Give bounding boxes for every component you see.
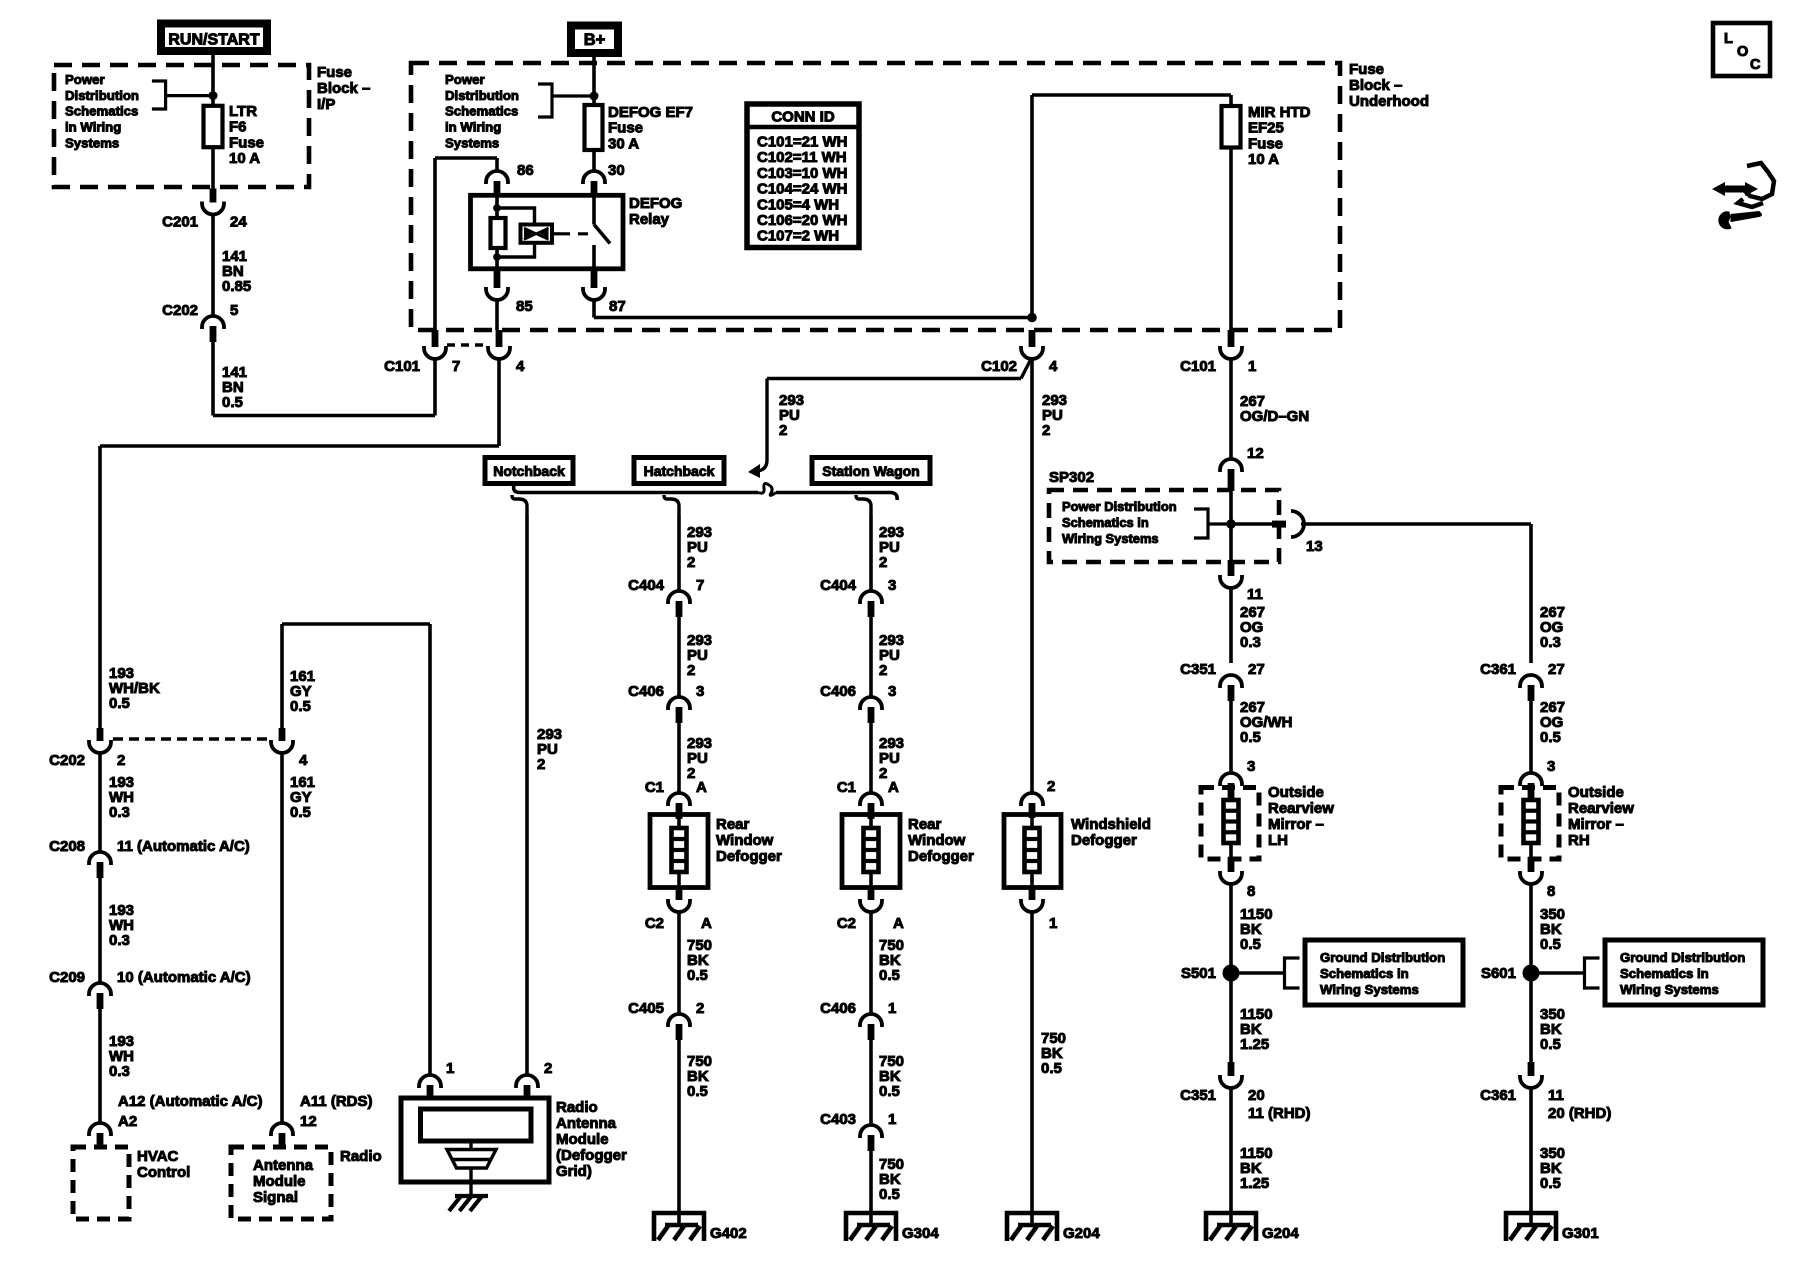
connector C403 pin 1 <box>860 1125 882 1138</box>
svg-text:Fuse: Fuse <box>1349 61 1384 78</box>
wire 293 PU 2 <box>869 514 873 591</box>
svg-text:0.85: 0.85 <box>222 278 251 295</box>
svg-text:2: 2 <box>117 752 125 769</box>
svg-text:4: 4 <box>299 752 308 769</box>
svg-text:2: 2 <box>687 765 695 782</box>
svg-text:0.5: 0.5 <box>109 695 130 712</box>
connector C361 pin 27 <box>1520 675 1542 688</box>
wire pin 85 to C101 pin 4 <box>495 300 499 330</box>
branch arrow end <box>757 379 767 472</box>
connector C406 pin 3 <box>668 697 690 710</box>
wire 293 PU 2 <box>677 616 681 697</box>
svg-text:C351: C351 <box>1180 661 1216 678</box>
svg-text:EF25: EF25 <box>1248 120 1284 137</box>
svg-text:L: L <box>1724 31 1733 47</box>
connector C404 pin 7 <box>668 591 690 604</box>
relay switch <box>592 195 596 224</box>
svg-text:0.3: 0.3 <box>109 1063 130 1080</box>
svg-text:C103=10 WH: C103=10 WH <box>757 165 847 182</box>
svg-text:C2: C2 <box>837 915 856 932</box>
wire 193 WH 0.3 <box>98 1008 102 1123</box>
svg-text:Block –: Block – <box>1349 77 1402 94</box>
svg-text:Defogger: Defogger <box>1071 832 1137 849</box>
svg-text:in Wiring: in Wiring <box>445 120 501 135</box>
svg-text:1.25: 1.25 <box>1240 1036 1269 1053</box>
svg-text:Control: Control <box>137 1164 190 1181</box>
power source box RUN/START <box>161 24 267 52</box>
svg-text:Schematics in: Schematics in <box>1620 966 1709 981</box>
HVAC Control dashed box <box>73 1147 129 1219</box>
wire 750 BK 0.5 <box>677 912 681 1014</box>
svg-text:Power: Power <box>65 72 105 87</box>
connector pin 2 windshield defogger <box>1021 793 1043 806</box>
svg-text:1: 1 <box>888 1000 896 1017</box>
wire 1150 BK 0.5 <box>1229 884 1233 973</box>
svg-text:3: 3 <box>888 577 896 594</box>
svg-text:Schematics in: Schematics in <box>1320 966 1409 981</box>
connector C351 pin 20 <box>1228 1062 1235 1076</box>
wire 141 BN 0.5 <box>211 341 215 416</box>
svg-text:Rearview: Rearview <box>1268 800 1334 817</box>
svg-text:2: 2 <box>696 1000 704 1017</box>
svg-text:2: 2 <box>544 1060 552 1077</box>
C202 dashed tie <box>113 737 270 740</box>
svg-text:Hatchback: Hatchback <box>644 463 715 479</box>
svg-text:DEFOG EF7: DEFOG EF7 <box>608 104 693 121</box>
svg-text:C361: C361 <box>1480 661 1516 678</box>
svg-text:C102=11 WH: C102=11 WH <box>757 149 847 166</box>
branch to ground distribution note <box>1239 971 1285 974</box>
svg-text:C202: C202 <box>162 302 198 319</box>
connector C405 pin 2 <box>668 1014 690 1027</box>
svg-text:11: 11 <box>1247 586 1263 603</box>
svg-text:C405: C405 <box>628 1000 664 1017</box>
svg-text:20: 20 <box>1248 1087 1265 1104</box>
radio antenna module pin 1 <box>419 1075 441 1088</box>
svg-text:87: 87 <box>609 298 626 315</box>
svg-text:Fuse: Fuse <box>229 134 264 151</box>
svg-text:C351: C351 <box>1180 1087 1216 1104</box>
svg-text:C208: C208 <box>49 838 85 855</box>
branch to ground distribution note RH <box>1539 971 1585 974</box>
svg-text:0.5: 0.5 <box>687 967 708 984</box>
svg-text:Fuse: Fuse <box>1248 135 1283 152</box>
svg-text:C: C <box>1750 57 1761 73</box>
svg-text:C107=2 WH: C107=2 WH <box>757 228 839 245</box>
ground G402 <box>677 1211 681 1225</box>
svg-text:Ground Distribution: Ground Distribution <box>1620 950 1745 965</box>
relay pin 85 connector <box>494 269 501 288</box>
connector C202 pin 5 <box>202 316 224 329</box>
svg-text:Systems: Systems <box>445 135 499 150</box>
svg-text:Defogger: Defogger <box>716 848 782 865</box>
fuse MIR HTD EF25 10A <box>1222 106 1241 148</box>
svg-text:0.5: 0.5 <box>879 967 900 984</box>
svg-text:Distribution: Distribution <box>65 88 139 103</box>
wire to relay pin 86 <box>435 156 497 160</box>
mirror heater element LH <box>1229 798 1233 800</box>
svg-text:Outside: Outside <box>1268 784 1324 801</box>
svg-text:27: 27 <box>1548 661 1565 678</box>
svg-text:85: 85 <box>516 298 533 315</box>
svg-text:7: 7 <box>696 577 704 594</box>
svg-text:0.5: 0.5 <box>290 698 311 715</box>
wire 293 PU 2 notchback <box>525 514 529 1075</box>
relay coil <box>495 195 499 218</box>
fuse block underhood dashed box <box>411 63 1340 330</box>
connector C201 pin 24 <box>210 188 217 202</box>
svg-text:1: 1 <box>888 1111 896 1128</box>
svg-text:Schematics: Schematics <box>445 104 518 119</box>
svg-text:C104=24 WH: C104=24 WH <box>757 181 847 198</box>
splice S501 <box>1223 965 1239 981</box>
svg-text:8: 8 <box>1547 883 1555 900</box>
outside rearview mirror LH dashed box <box>1201 788 1259 860</box>
wire 267 OG 0.5 <box>1529 700 1533 773</box>
svg-text:Radio: Radio <box>556 1099 598 1116</box>
bracket to B+ wire <box>538 84 552 117</box>
svg-text:2: 2 <box>687 662 695 679</box>
svg-text:G204: G204 <box>1262 1225 1299 1242</box>
wire 350 BK 0.5 <box>1529 884 1533 973</box>
connector C208 pin 11 <box>89 852 111 865</box>
svg-text:C406: C406 <box>628 683 664 700</box>
wire elbow from radio antenna module <box>282 622 430 626</box>
svg-text:C1: C1 <box>837 779 856 796</box>
svg-text:Outside: Outside <box>1568 784 1624 801</box>
svg-text:C106=20 WH: C106=20 WH <box>757 212 847 229</box>
svg-text:CONN ID: CONN ID <box>771 109 835 126</box>
branch to RH mirror with connector 13 <box>1231 522 1278 525</box>
svg-text:Mirror –: Mirror – <box>1568 816 1624 833</box>
defogger grid element <box>421 1109 532 1141</box>
wire through SP302 <box>1229 491 1233 560</box>
svg-text:C406: C406 <box>820 683 856 700</box>
ground G204 (LH mirror) <box>1229 1211 1233 1225</box>
svg-text:11: 11 <box>1548 1087 1564 1104</box>
svg-text:C403: C403 <box>820 1111 856 1128</box>
svg-text:Antenna: Antenna <box>556 1115 617 1132</box>
connector C361 pin 11 <box>1528 1062 1535 1076</box>
svg-text:11 (Automatic A/C): 11 (Automatic A/C) <box>117 838 250 855</box>
svg-text:Defogger: Defogger <box>908 848 974 865</box>
ground G301 <box>1529 1211 1533 1225</box>
svg-text:Distribution: Distribution <box>445 88 519 103</box>
Ground Distribution note box (LH) <box>1305 940 1463 1005</box>
svg-text:Wiring Systems: Wiring Systems <box>1320 982 1419 997</box>
svg-text:Power: Power <box>445 72 485 87</box>
svg-text:C2: C2 <box>645 915 664 932</box>
connector C101 pin 7 <box>432 330 439 347</box>
svg-text:C404: C404 <box>628 577 665 594</box>
wire 267 OG/WH 0.5 <box>1229 700 1233 773</box>
svg-text:Windshield: Windshield <box>1071 816 1151 833</box>
windshield defogger box <box>1004 815 1061 888</box>
svg-text:11 (RHD): 11 (RHD) <box>1248 1105 1311 1122</box>
svg-text:30: 30 <box>608 162 625 179</box>
wire to RH mirror <box>1529 524 1533 663</box>
svg-text:2: 2 <box>687 554 695 571</box>
svg-text:G301: G301 <box>1562 1225 1599 1242</box>
svg-text:Power Distribution: Power Distribution <box>1062 499 1177 514</box>
svg-text:3: 3 <box>1247 758 1255 775</box>
svg-text:3: 3 <box>1547 758 1555 775</box>
connector C101 pin 4 <box>496 330 503 347</box>
relay linkage dashed <box>552 232 560 235</box>
bracket SP302 <box>1194 509 1208 538</box>
svg-text:1.25: 1.25 <box>1240 1175 1269 1192</box>
svg-text:MIR HTD: MIR HTD <box>1248 104 1311 121</box>
wire 750 BK 0.5 <box>677 1039 681 1211</box>
svg-text:0.5: 0.5 <box>687 1083 708 1100</box>
wire 1150 BK 1.25 <box>1229 981 1233 1062</box>
wire 750 BK 0.5 <box>869 912 873 1014</box>
svg-text:Rear: Rear <box>716 816 750 833</box>
Antenna Module Signal dashed box <box>231 1147 331 1219</box>
svg-text:0.5: 0.5 <box>1540 1036 1561 1053</box>
splice S601 <box>1523 965 1539 981</box>
wire 750 BK 0.5 <box>869 1150 873 1211</box>
svg-text:Wiring Systems: Wiring Systems <box>1620 982 1719 997</box>
wire up to MIR HTD fuse <box>1030 95 1034 318</box>
connector C406 pin 1 <box>860 1014 882 1027</box>
svg-text:Radio: Radio <box>340 1148 382 1165</box>
Notchback box <box>485 458 573 484</box>
svg-text:Block –: Block – <box>317 80 370 97</box>
ground G304 <box>869 1211 873 1225</box>
svg-text:Window: Window <box>716 832 774 849</box>
svg-text:2: 2 <box>879 662 887 679</box>
connector pin 3 <box>1220 773 1242 786</box>
svg-text:10 (Automatic A/C): 10 (Automatic A/C) <box>117 969 251 986</box>
wire elbow to C101 pin 7 <box>213 414 435 418</box>
connector C202 pin 2 <box>97 728 104 741</box>
svg-text:0.5: 0.5 <box>1240 729 1261 746</box>
fuse LTR F6 10A <box>204 106 223 147</box>
connector C202 pin 4 <box>279 728 286 741</box>
connector C101 pins 7-4 dashed tie <box>447 343 488 346</box>
svg-text:4: 4 <box>1049 358 1058 375</box>
rear window defogger box (hatchback) <box>650 815 708 888</box>
connector C351 pin 27 <box>1220 675 1242 688</box>
svg-text:C101: C101 <box>384 358 420 375</box>
wagon branch hook <box>856 495 871 514</box>
junction dot <box>209 92 217 100</box>
svg-text:Schematics: Schematics <box>65 104 138 119</box>
connector pin 8 <box>1228 857 1235 872</box>
svg-text:8: 8 <box>1247 883 1255 900</box>
wire B+ down <box>592 56 596 105</box>
junction dot B+ <box>590 92 598 100</box>
svg-text:C102: C102 <box>981 358 1017 375</box>
defogger element <box>677 818 681 828</box>
svg-text:O: O <box>1737 44 1748 60</box>
outside rearview mirror RH dashed box <box>1501 788 1559 860</box>
svg-text:C201: C201 <box>162 214 198 231</box>
svg-text:Notchback: Notchback <box>493 463 565 479</box>
relay pin 86 connector <box>486 171 508 184</box>
svg-text:12: 12 <box>1247 445 1264 462</box>
svg-text:A: A <box>701 915 712 932</box>
svg-text:DEFOG: DEFOG <box>629 195 682 212</box>
Ground Distribution note box (RH) <box>1605 940 1763 1005</box>
wire 350 BK 0.5 <box>1529 981 1533 1062</box>
connector C2 pin A <box>868 888 875 900</box>
svg-text:F6: F6 <box>229 119 247 136</box>
svg-text:1: 1 <box>1049 915 1057 932</box>
svg-text:C101=21 WH: C101=21 WH <box>757 134 847 151</box>
power source box B+ <box>571 26 618 54</box>
junction dot at C102 branch <box>1028 313 1037 322</box>
svg-text:Signal: Signal <box>253 1189 298 1206</box>
wire 750 BK 0.5 <box>1030 912 1034 1211</box>
svg-text:C101: C101 <box>1180 358 1216 375</box>
wire 293 PU 2 <box>677 514 681 591</box>
svg-text:LH: LH <box>1268 832 1288 849</box>
svg-text:S501: S501 <box>1181 965 1216 982</box>
wire 293 PU 2 <box>677 722 681 793</box>
connector C406 pin 3 <box>860 697 882 710</box>
wire 141 BN 0.85 <box>211 215 215 317</box>
svg-text:HVAC: HVAC <box>137 1148 179 1165</box>
svg-text:0.3: 0.3 <box>109 932 130 949</box>
svg-text:Module: Module <box>253 1173 306 1190</box>
connector pin 12 <box>1220 459 1242 472</box>
svg-text:13: 13 <box>1306 538 1323 555</box>
wire fuse to relay pin 30 <box>592 150 596 171</box>
svg-text:Module: Module <box>556 1131 609 1148</box>
CONN ID table <box>747 104 859 248</box>
svg-text:C361: C361 <box>1480 1087 1516 1104</box>
relay coil core loop <box>497 208 535 257</box>
Station Wagon box <box>812 458 930 484</box>
svg-text:OG/D–GN: OG/D–GN <box>1240 408 1309 425</box>
svg-text:Fuse: Fuse <box>317 64 352 81</box>
radio antenna module pin 2 <box>516 1075 538 1088</box>
svg-text:2: 2 <box>537 756 545 773</box>
svg-text:Rearview: Rearview <box>1568 800 1634 817</box>
bracket from note to wire <box>152 81 166 109</box>
connector pin 11 <box>1228 560 1235 576</box>
defogger element <box>869 818 873 828</box>
svg-text:0.5: 0.5 <box>222 394 243 411</box>
wire fuse to C101 pin 1 <box>1229 148 1233 331</box>
svg-text:G204: G204 <box>1063 1225 1100 1242</box>
svg-text:20 (RHD): 20 (RHD) <box>1548 1105 1611 1122</box>
fuse block I/P dashed box <box>54 65 309 187</box>
svg-text:C406: C406 <box>820 1000 856 1017</box>
connector C101 pin 1 <box>1228 330 1235 347</box>
svg-text:Underhood: Underhood <box>1349 93 1429 110</box>
connector pin 1 <box>1029 888 1036 900</box>
antenna symbol <box>469 1141 472 1150</box>
navigation arrows and wrench icon <box>1722 186 1748 193</box>
wire 350 BK 0.5 <box>1529 1088 1533 1211</box>
svg-text:0.5: 0.5 <box>1540 729 1561 746</box>
connector C1 pin A <box>860 793 882 806</box>
svg-text:A: A <box>696 779 707 796</box>
svg-text:1: 1 <box>1248 358 1256 375</box>
svg-text:in Wiring: in Wiring <box>65 120 121 135</box>
svg-text:Fuse: Fuse <box>608 120 643 137</box>
connector C2 pin A <box>676 888 683 900</box>
relay core X box <box>521 225 553 243</box>
svg-text:Mirror –: Mirror – <box>1268 816 1324 833</box>
wire 193 WH 0.3 <box>98 753 102 852</box>
wire pin 87 across to C102 <box>592 300 596 318</box>
svg-text:RH: RH <box>1568 832 1590 849</box>
connector pin 3 RH <box>1520 773 1542 786</box>
svg-text:C105=4 WH: C105=4 WH <box>757 196 839 213</box>
svg-text:2: 2 <box>1042 422 1050 439</box>
svg-text:12: 12 <box>300 1113 317 1130</box>
svg-text:G304: G304 <box>902 1225 939 1242</box>
svg-text:C202: C202 <box>49 752 85 769</box>
svg-text:0.3: 0.3 <box>1540 634 1561 651</box>
svg-text:4: 4 <box>516 358 525 375</box>
wire C101 pin4 to HVAC branch <box>497 359 501 446</box>
svg-text:7: 7 <box>452 358 460 375</box>
svg-text:Systems: Systems <box>65 135 119 150</box>
wire 293 PU 2 <box>869 722 873 793</box>
svg-text:0.5: 0.5 <box>1540 1175 1561 1192</box>
wire fuse to C201 <box>211 147 215 188</box>
svg-text:Ground Distribution: Ground Distribution <box>1320 950 1445 965</box>
svg-text:24: 24 <box>230 214 247 231</box>
connector C209 pin 10 <box>89 983 111 996</box>
svg-text:2: 2 <box>1047 778 1055 795</box>
mirror heater element RH <box>1529 798 1533 800</box>
ground G204 (windshield) <box>1030 1211 1034 1225</box>
svg-text:RUN/START: RUN/START <box>168 32 259 49</box>
svg-text:Wiring Systems: Wiring Systems <box>1062 531 1159 546</box>
svg-text:0.5: 0.5 <box>1540 936 1561 953</box>
wire 293 PU 2 <box>869 616 873 697</box>
wire 161 GY 0.5 upper <box>280 624 284 728</box>
SP302 splice dashed box <box>1049 490 1279 562</box>
svg-text:A2: A2 <box>118 1113 137 1130</box>
svg-text:A12 (Automatic A/C): A12 (Automatic A/C) <box>118 1093 262 1110</box>
Hatchback box <box>634 458 724 484</box>
svg-text:(Defogger: (Defogger <box>556 1147 627 1164</box>
svg-text:A: A <box>888 779 899 796</box>
svg-text:C404: C404 <box>820 577 857 594</box>
svg-text:C209: C209 <box>49 969 85 986</box>
notchback branch hook <box>512 495 527 514</box>
svg-text:10 A: 10 A <box>1248 151 1279 168</box>
svg-text:5: 5 <box>230 302 238 319</box>
svg-text:B+: B+ <box>584 31 606 49</box>
wire C102 diagonal branch <box>1021 359 1031 379</box>
bus center splice squiggle <box>758 484 776 496</box>
svg-text:3: 3 <box>696 683 704 700</box>
svg-text:SP302: SP302 <box>1049 469 1094 486</box>
svg-text:Rear: Rear <box>908 816 942 833</box>
svg-text:Schematics in: Schematics in <box>1062 515 1149 530</box>
connector pin 8 RH <box>1528 857 1535 872</box>
svg-text:Antenna: Antenna <box>253 1157 314 1174</box>
svg-text:0.5: 0.5 <box>879 1186 900 1203</box>
svg-text:2: 2 <box>879 554 887 571</box>
radio antenna module box <box>401 1098 549 1182</box>
wire to rake ground <box>469 1168 472 1196</box>
junction dot SP302 <box>1227 520 1236 529</box>
svg-text:I/P: I/P <box>317 96 335 113</box>
LOC reference box <box>1713 23 1770 76</box>
svg-text:0.5: 0.5 <box>1041 1060 1062 1077</box>
svg-text:0.5: 0.5 <box>879 1083 900 1100</box>
svg-text:27: 27 <box>1248 661 1265 678</box>
